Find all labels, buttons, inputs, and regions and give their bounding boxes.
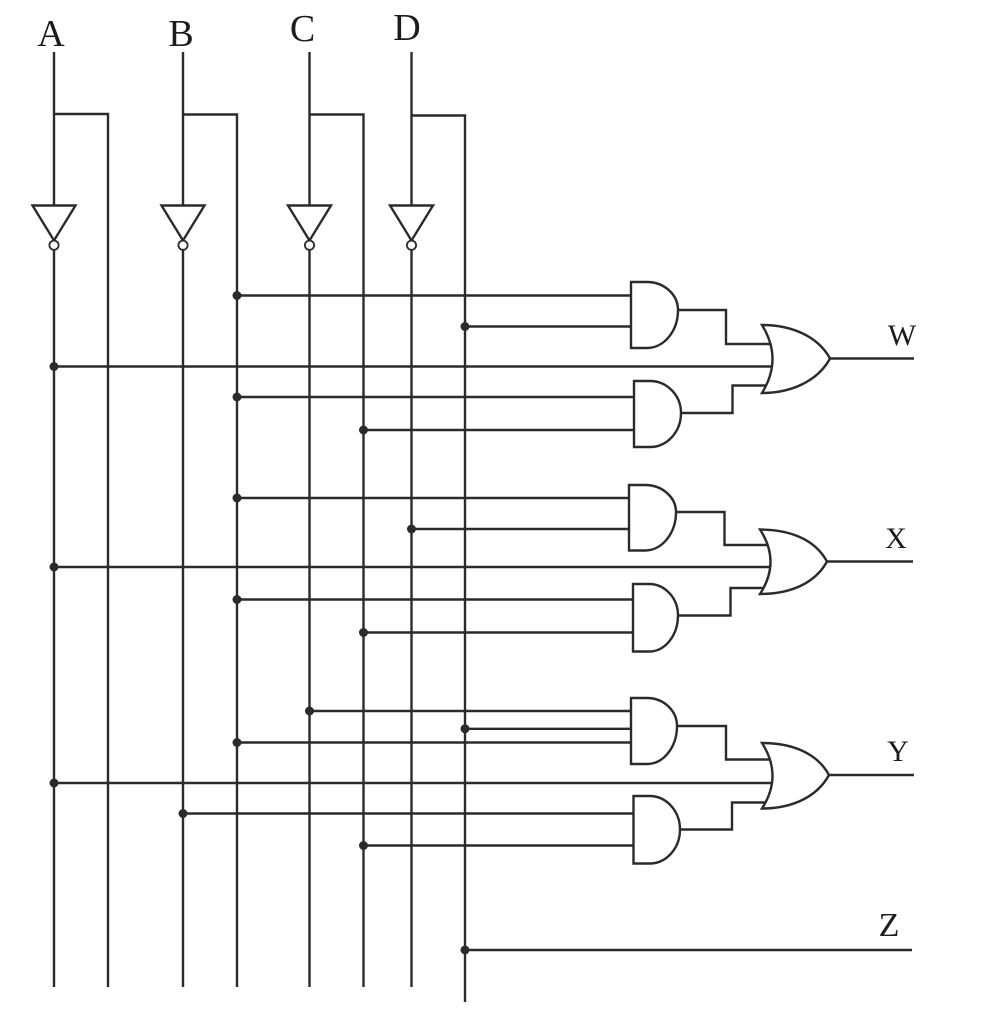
wire rail A-inverted (53, 249, 55, 987)
and-gate U9 (631, 698, 677, 764)
wire U6 input 1 (from B-branch) (237, 396, 636, 398)
wire Y long input (from A-inverted) (54, 782, 774, 784)
node D-branch to U9 (461, 724, 470, 733)
or-gate O1 (W) (762, 325, 830, 393)
svg-text:Y: Y (887, 735, 909, 768)
node C-branch to U10 (359, 841, 368, 850)
node B-branch to U8 (233, 595, 242, 604)
wire U8 input 2 (from C-branch) (364, 631, 636, 633)
node D-branch to Z (461, 946, 470, 955)
wire U8 output to O2 (678, 588, 774, 616)
wire U6 input 2 (from C-branch) (364, 429, 637, 431)
node A to Y (50, 779, 59, 788)
wire U5 input 1 (from B-branch) (237, 294, 633, 296)
wire input D stem (410, 52, 412, 207)
wire U6 output to O1 (681, 386, 774, 414)
svg-text:C: C (290, 8, 315, 50)
wire rail B-inverted (182, 249, 184, 987)
wire X long input (from A-inverted) (54, 566, 772, 568)
wire C branch (310, 115, 364, 988)
wire output W (830, 357, 914, 359)
wire input A stem (53, 52, 55, 207)
inverter U2 bubble (178, 241, 187, 250)
node B to U10 (179, 809, 188, 818)
svg-text:B: B (168, 13, 193, 55)
wire input C stem (308, 52, 310, 207)
svg-text:X: X (885, 522, 907, 555)
inverter U1 bubble (49, 241, 58, 250)
node B-branch to U5 (233, 291, 242, 300)
node B-branch to U9 (233, 738, 242, 747)
wire U9 input 2 (from D-branch) (465, 728, 633, 730)
wire output Y (829, 774, 914, 776)
wire B branch (183, 115, 237, 988)
node C-branch to U8 (359, 628, 368, 637)
node D-branch to U5 (461, 322, 470, 331)
wire U9 output to O3 (677, 726, 774, 760)
wire U10 input 2 (from C-branch) (364, 844, 636, 846)
wire output X (827, 560, 913, 562)
node C-branch to U6 (359, 426, 368, 435)
wire U7 input 1 (from B-branch) (237, 497, 631, 499)
wire U10 output to O3 (680, 803, 774, 830)
wire input B stem (182, 52, 184, 207)
wire rail D-inverted (410, 249, 412, 987)
wire U9 input 1 (from C-inverted) (310, 710, 634, 712)
node A to X (50, 563, 59, 572)
and-gate U6 (634, 381, 681, 447)
and-gate U5 (631, 282, 678, 348)
wire U5 output to O1 (678, 310, 774, 344)
and-gate U10 (634, 796, 681, 864)
svg-text:D: D (393, 7, 420, 49)
inverter U1 (A) (33, 206, 76, 241)
wire rail C-inverted (308, 249, 310, 987)
wire W long input (from A-inverted) (54, 365, 774, 367)
wire output Z (465, 949, 912, 951)
node B-branch to U6 (233, 393, 242, 402)
node B-branch to U7 (233, 494, 242, 503)
node A to W (50, 362, 59, 371)
inverter U4 (D) (390, 206, 433, 241)
inverter U4 bubble (407, 241, 416, 250)
wire U9 input 3 (from B-branch) (237, 741, 633, 743)
wire U5 input 2 (from D-branch) (465, 325, 633, 327)
svg-text:W: W (888, 319, 917, 352)
inverter U2 (B) (162, 206, 205, 241)
wire U10 input 1 (from B-inverted) (183, 812, 636, 814)
or-gate O3 (Y) (762, 743, 829, 809)
svg-text:A: A (37, 13, 65, 55)
inverter U3 (C) (288, 206, 331, 241)
svg-text:Z: Z (879, 907, 900, 944)
and-gate U7 (629, 485, 676, 551)
wire U8 input 1 (from B-branch) (237, 598, 635, 600)
wire U7 input 2 (from D-inverted) (412, 528, 632, 530)
wire A branch (54, 114, 108, 987)
or-gate O2 (X) (760, 530, 827, 595)
wire U7 output to O2 (676, 512, 774, 545)
wire D branch (412, 116, 466, 1003)
node C to U9 (305, 707, 314, 716)
inverter U3 bubble (305, 241, 314, 250)
and-gate U8 (633, 584, 678, 652)
node D to U7 (407, 525, 416, 534)
